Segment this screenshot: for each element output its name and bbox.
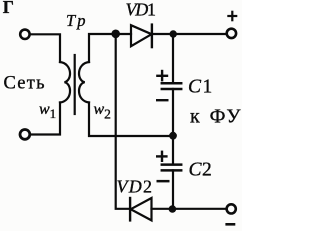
svg-text:к ФУ: к ФУ xyxy=(190,105,241,127)
wire xyxy=(30,103,60,135)
capacitor C2 xyxy=(162,163,181,166)
diode VD1 cathode bar xyxy=(151,25,153,47)
capacitor C1 xyxy=(162,82,181,85)
wire (plus rail down to C1) xyxy=(172,34,174,83)
terminal X2 (mains, bottom) xyxy=(20,130,30,140)
plus sign at + output terminal xyxy=(227,15,237,17)
wire (w2 top to VD1 anode) xyxy=(89,34,131,62)
svg-text:VD2: VD2 xyxy=(117,176,153,196)
wire (node A column down to VD2 cathode) xyxy=(116,34,130,209)
terminal - output xyxy=(227,204,236,213)
minus sign at - output terminal xyxy=(225,223,235,226)
diode VD2 xyxy=(131,198,152,220)
svg-text:Сеть: Сеть xyxy=(4,74,45,94)
diode VD1 xyxy=(131,25,152,46)
svg-text:C1: C1 xyxy=(188,76,212,97)
svg-text:C2: C2 xyxy=(189,159,212,180)
minus sign at C2 xyxy=(157,180,170,183)
junction node A on top rail xyxy=(111,30,120,39)
plus sign at C1 xyxy=(156,75,168,77)
transformer Tp secondary winding w2 xyxy=(79,62,89,103)
minus sign at C1 xyxy=(156,99,169,101)
wire (VD1 cathode to + terminal) xyxy=(152,33,227,35)
wire (C2 down to minus rail) xyxy=(172,170,174,209)
wire xyxy=(30,34,60,62)
wire (C1 to mid node to C2) xyxy=(172,89,174,164)
junction node on plus rail xyxy=(170,30,177,37)
plus sign at C2 xyxy=(156,155,168,157)
diode VD2 cathode bar xyxy=(129,198,131,220)
junction mid node (k FU) xyxy=(169,132,177,140)
terminal + output xyxy=(227,29,236,38)
terminal X1 (mains, top) xyxy=(20,30,29,39)
transformer Tp primary winding w1 xyxy=(60,62,70,103)
svg-text:VD1: VD1 xyxy=(126,0,157,20)
svg-text:Г: Г xyxy=(3,0,14,17)
wire (VD2 anode to - terminal) xyxy=(152,208,227,210)
junction node on minus rail xyxy=(169,205,177,213)
wire (w2 bottom to mid node) xyxy=(89,103,170,137)
transformer core xyxy=(74,55,76,114)
